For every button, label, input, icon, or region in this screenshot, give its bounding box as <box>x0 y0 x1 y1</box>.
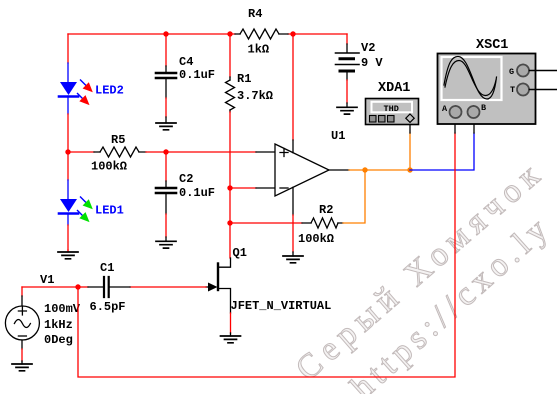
capacitor C4 <box>156 34 215 117</box>
node junction (166,152) <box>163 149 168 154</box>
node junction (166,34) <box>163 31 168 36</box>
resistor R2 <box>298 203 343 246</box>
wire plus-input row <box>146 151 275 153</box>
wire bottom bus <box>78 133 455 377</box>
svg-text:JFET_N_VIRTUAL: JFET_N_VIRTUAL <box>231 299 332 313</box>
wire LED1 column <box>67 152 69 250</box>
svg-text:R4: R4 <box>248 7 262 21</box>
svg-text:XDA1: XDA1 <box>378 81 410 96</box>
wire Q1 gate <box>130 286 206 288</box>
ground (V1) <box>12 361 32 371</box>
wire to XDA1 (orange) <box>409 124 411 170</box>
svg-text:C4: C4 <box>179 55 193 69</box>
transistor Q1 <box>206 246 331 313</box>
wire top bus red <box>68 33 347 35</box>
wire Q1 source <box>230 313 232 336</box>
svg-text:100kΩ: 100kΩ <box>298 232 334 246</box>
svg-text:G: G <box>509 67 514 77</box>
wire LED2 column <box>67 34 69 152</box>
svg-text:Q1: Q1 <box>233 246 247 260</box>
wire R1 column down <box>229 112 231 258</box>
node junction (230,188) <box>227 185 232 190</box>
wire scope G <box>530 70 557 72</box>
battery V2 <box>336 34 384 103</box>
node junction (365,170) <box>362 167 367 172</box>
op-amp U1 <box>275 34 345 215</box>
node junction (230,34) <box>227 31 232 36</box>
wire scope A stub <box>454 119 456 133</box>
source V1 <box>5 273 80 361</box>
LED LED2 <box>59 80 124 105</box>
wire to scope B (blue) <box>410 119 474 170</box>
svg-text:0Deg: 0Deg <box>44 333 73 347</box>
capacitor C2 <box>156 152 215 237</box>
wire minus-input row <box>230 187 275 189</box>
svg-text:R2: R2 <box>319 203 333 217</box>
svg-text:100kΩ: 100kΩ <box>91 160 127 174</box>
resistor R4 <box>235 7 288 57</box>
oscilloscope XSC1 <box>438 38 536 124</box>
ground (LED1) <box>58 250 78 259</box>
svg-text:V1: V1 <box>40 273 54 287</box>
wire op-amp ground leg <box>292 215 294 256</box>
svg-text:THD: THD <box>384 104 399 114</box>
svg-text:LED1: LED1 <box>95 204 124 218</box>
svg-text:B: B <box>481 103 486 113</box>
svg-text:9 V: 9 V <box>361 56 383 70</box>
svg-text:U1: U1 <box>331 129 345 143</box>
svg-text:C1: C1 <box>100 261 114 275</box>
ground (Q1) <box>221 336 241 343</box>
node junction (68,152) <box>65 149 70 154</box>
svg-text:100mV: 100mV <box>44 302 81 316</box>
wire feedback row <box>230 222 302 224</box>
wire R2 to output (orange) <box>343 170 365 223</box>
resistor R5 <box>68 133 146 174</box>
svg-text:C2: C2 <box>179 172 193 186</box>
svg-text:6.5pF: 6.5pF <box>90 300 126 314</box>
node junction (293,34) <box>290 31 295 36</box>
node junction (410,170) <box>407 167 412 172</box>
LED LED1 <box>59 197 124 222</box>
node junction (78,287) <box>75 284 80 289</box>
resistor R1 <box>226 34 274 112</box>
svg-text:V2: V2 <box>361 41 375 55</box>
wire scope T <box>530 89 557 91</box>
capacitor C1 <box>78 261 130 314</box>
svg-text:T: T <box>510 85 515 95</box>
wire op-amp output <box>329 169 410 171</box>
svg-text:1kΩ: 1kΩ <box>248 43 270 57</box>
ground (C2) <box>156 237 176 248</box>
svg-text:R1: R1 <box>237 72 251 86</box>
svg-text:0.1uF: 0.1uF <box>179 68 215 82</box>
svg-text:R5: R5 <box>111 133 125 147</box>
watermark line 2 <box>344 208 557 394</box>
ground (V2) <box>337 103 357 114</box>
watermark line 1 <box>289 153 552 389</box>
svg-text:3.7kΩ: 3.7kΩ <box>237 89 273 103</box>
ground (C4) <box>156 117 176 130</box>
svg-text:LED2: LED2 <box>95 84 124 98</box>
node junction (230,223) <box>227 220 232 225</box>
svg-text:0.1uF: 0.1uF <box>179 186 215 200</box>
ground (op-amp) <box>283 256 303 263</box>
distortion analyzer XDA1 <box>366 81 419 125</box>
svg-text:XSC1: XSC1 <box>476 38 508 53</box>
svg-text:1kHz: 1kHz <box>44 318 73 332</box>
svg-text:A: A <box>442 104 448 114</box>
